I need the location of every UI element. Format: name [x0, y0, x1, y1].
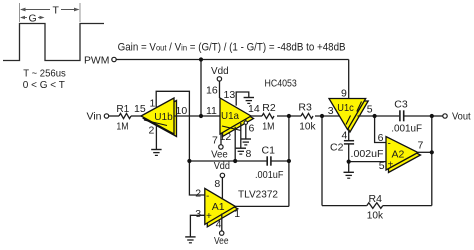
svg-text:+: + — [206, 211, 212, 222]
svg-text:10k: 10k — [299, 121, 316, 133]
svg-text:1M: 1M — [262, 121, 274, 133]
svg-text:+: + — [388, 160, 394, 171]
svg-text:T ~ 256us: T ~ 256us — [23, 68, 66, 80]
svg-text:10: 10 — [176, 105, 188, 117]
svg-text:8: 8 — [214, 178, 220, 190]
svg-text:Vee: Vee — [214, 235, 229, 247]
svg-text:0 < G < T: 0 < G < T — [23, 79, 66, 91]
svg-text:Vee: Vee — [211, 148, 228, 160]
svg-text:.001uF: .001uF — [255, 169, 284, 181]
svg-text:1M: 1M — [116, 121, 128, 133]
svg-text:R3: R3 — [298, 102, 312, 114]
svg-text:A1: A1 — [212, 201, 225, 213]
svg-text:U1b: U1b — [154, 111, 173, 123]
svg-text:Vout: Vout — [452, 111, 471, 123]
svg-text:A2: A2 — [392, 149, 405, 161]
svg-text:-: - — [206, 191, 209, 202]
svg-text:TLV2372: TLV2372 — [238, 189, 278, 201]
svg-text:Vdd: Vdd — [211, 65, 229, 77]
svg-text:C1: C1 — [262, 145, 276, 157]
svg-text:4: 4 — [342, 130, 348, 142]
svg-text:.001uF: .001uF — [391, 123, 422, 135]
svg-text:16: 16 — [206, 85, 218, 97]
svg-text:R2: R2 — [262, 102, 276, 114]
svg-text:11: 11 — [206, 105, 217, 117]
svg-text:1: 1 — [150, 98, 156, 110]
svg-text:8: 8 — [246, 148, 252, 160]
svg-text:.002uF: .002uF — [351, 148, 384, 160]
svg-text:9: 9 — [341, 88, 347, 100]
svg-text:4: 4 — [216, 219, 222, 231]
svg-text:G: G — [29, 13, 37, 25]
svg-text:Gain = Vout / Vin = (G/T) / (: Gain = Vout / Vin = (G/T) / (1 - G/T) = … — [118, 42, 346, 54]
svg-text:15: 15 — [134, 103, 146, 115]
svg-text:3: 3 — [328, 105, 334, 117]
svg-text:13: 13 — [224, 89, 236, 101]
svg-text:10k: 10k — [367, 210, 384, 222]
svg-text:R1: R1 — [116, 103, 129, 115]
svg-text:R4: R4 — [369, 193, 383, 205]
svg-text:PWM: PWM — [84, 55, 109, 67]
svg-text:HC4053: HC4053 — [265, 78, 297, 90]
svg-text:C2: C2 — [330, 142, 344, 154]
svg-text:1: 1 — [234, 208, 240, 220]
svg-text:Vin: Vin — [87, 111, 102, 123]
svg-text:-: - — [388, 139, 391, 150]
svg-text:2: 2 — [149, 125, 155, 137]
svg-text:2: 2 — [195, 188, 201, 200]
svg-text:C3: C3 — [394, 99, 408, 111]
svg-text:Vdd: Vdd — [214, 160, 230, 172]
svg-text:14: 14 — [248, 103, 260, 115]
svg-text:7: 7 — [418, 140, 424, 152]
svg-text:U1c: U1c — [337, 102, 354, 114]
svg-text:5: 5 — [367, 104, 373, 116]
svg-text:U1a: U1a — [221, 110, 239, 122]
svg-text:7: 7 — [212, 134, 218, 146]
svg-text:6: 6 — [249, 123, 255, 135]
svg-text:5: 5 — [379, 160, 385, 172]
svg-text:T: T — [53, 5, 60, 17]
svg-text:6: 6 — [378, 132, 384, 144]
svg-text:3: 3 — [195, 208, 201, 220]
